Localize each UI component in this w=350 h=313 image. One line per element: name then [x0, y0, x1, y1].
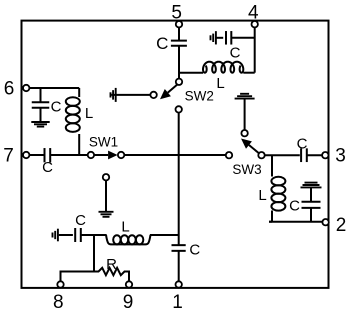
- wire junction down to resistor line: [93, 235, 95, 272]
- node junction L tap: [178, 72, 180, 74]
- outer border frame: [22, 21, 329, 288]
- inductor L (right vertical): [271, 177, 285, 186]
- SW3 left contact: [226, 152, 232, 158]
- wire SW1 to SW3: [124, 154, 226, 156]
- SW2 arm arrow to ground contact: [168, 84, 178, 92]
- ground (inverted, above SW3): [235, 98, 255, 100]
- wire node to inductor L: [179, 72, 203, 74]
- inductor L (left vertical): [66, 97, 80, 106]
- terminal 6: [23, 85, 29, 91]
- terminal 8: [57, 281, 63, 287]
- svg-text:C: C: [297, 136, 308, 153]
- svg-text:8: 8: [53, 292, 64, 313]
- wire capacitor to terminal 3: [306, 154, 322, 156]
- svg-text:5: 5: [171, 3, 182, 24]
- ground (rotated left, bottom): [57, 229, 59, 242]
- ground (rotated left, SW2): [115, 88, 117, 102]
- capacitor C (terminal 7 line): [44, 148, 46, 162]
- svg-text:L: L: [121, 219, 129, 236]
- svg-text:R: R: [106, 256, 117, 273]
- capacitor C (top middle): [171, 40, 187, 42]
- capacitor C (bottom left): [74, 228, 76, 242]
- svg-text:C: C: [230, 45, 241, 62]
- wire ground to capacitor: [310, 187, 312, 202]
- svg-text:L: L: [85, 105, 93, 122]
- svg-text:9: 9: [123, 292, 134, 313]
- wire capacitor to rail: [310, 208, 312, 222]
- svg-text:C: C: [289, 198, 300, 215]
- terminal 3: [322, 152, 328, 158]
- wire contact to rotated ground: [112, 94, 151, 96]
- bottom rail to terminal 2: [269, 221, 322, 223]
- wire resistor line to terminal 8: [60, 271, 62, 282]
- svg-text:4: 4: [248, 3, 259, 24]
- svg-text:L: L: [258, 187, 266, 204]
- SW2 lower contact: [176, 106, 182, 112]
- capacitor C (right, to terminal 2 rail): [302, 201, 321, 203]
- resistor R: [61, 268, 130, 275]
- svg-text:C: C: [51, 99, 62, 116]
- wire open contact to ground: [105, 180, 107, 211]
- wire capacitor to ground: [40, 108, 42, 123]
- svg-text:SW2: SW2: [185, 88, 214, 103]
- wire SW3 pivot to capacitor: [265, 154, 300, 156]
- svg-text:L: L: [216, 75, 224, 92]
- svg-text:C: C: [156, 34, 168, 53]
- wire ground to capacitor C: [217, 37, 224, 39]
- terminal 9: [126, 281, 132, 287]
- wire terminal 4 down: [254, 27, 256, 73]
- wire resistor line to terminal 9: [128, 271, 130, 282]
- capacitor C (above terminal 1): [172, 244, 186, 246]
- SW1 left contact: [88, 152, 94, 158]
- svg-text:C: C: [42, 159, 53, 176]
- terminal 5: [176, 21, 182, 27]
- capacitor C (terminal 3 line): [300, 148, 302, 162]
- svg-text:SW3: SW3: [232, 162, 261, 177]
- svg-text:1: 1: [172, 292, 183, 313]
- SW3 ground-side contact: [241, 130, 247, 136]
- wire capacitor to inductor: [81, 234, 107, 236]
- SW1 arm arrow: [94, 154, 108, 156]
- terminal 1: [176, 281, 182, 287]
- wire capacitor to SW2 pivot: [178, 46, 180, 79]
- ground (below left capacitor): [31, 121, 49, 123]
- svg-text:C: C: [189, 241, 200, 258]
- wire capacitor to terminal 1: [178, 251, 180, 282]
- ground (inverted, above right capacitor): [301, 186, 322, 188]
- wire capacitor to node 4 line: [231, 37, 254, 39]
- terminal 2: [322, 219, 328, 225]
- SW1 open contact below: [103, 174, 109, 180]
- SW3 arm arrow to ground contact: [249, 145, 259, 153]
- svg-text:3: 3: [335, 146, 346, 167]
- terminal 7: [23, 152, 29, 158]
- wire terminal 5 to capacitor: [178, 27, 180, 42]
- capacitor C (left, to ground): [32, 101, 50, 103]
- wire terminal 6 right: [26, 87, 79, 89]
- wire terminal 7 to capacitor: [26, 154, 44, 156]
- wire inductor to center spine: [150, 234, 179, 236]
- wire junction down to inductor: [271, 155, 273, 176]
- wire capacitor to SW1 contact: [50, 154, 88, 156]
- ground (below SW1): [99, 211, 114, 213]
- wire contact up to ground: [244, 99, 246, 130]
- svg-text:C: C: [75, 212, 86, 229]
- wire ground to capacitor: [59, 234, 73, 236]
- wire inductor L bottom down: [78, 134, 80, 155]
- wire SW2 lower contact down to capacitor: [178, 113, 180, 246]
- svg-text:6: 6: [4, 79, 15, 100]
- svg-text:7: 7: [3, 146, 14, 167]
- SW1 right contact: [118, 152, 124, 158]
- capacitor C (series to ground, top right): [225, 31, 227, 45]
- SW2 pivot contact: [176, 79, 182, 85]
- wire to inductor L top: [78, 88, 80, 97]
- SW3 pivot contact: [258, 152, 264, 158]
- wire inductor to terminal 4 line: [243, 72, 254, 74]
- terminal 4: [252, 21, 258, 27]
- wire inductor bottom to rail: [271, 211, 273, 222]
- svg-text:SW1: SW1: [89, 135, 118, 150]
- svg-text:2: 2: [336, 215, 347, 236]
- ground (rotated left, top right): [215, 31, 217, 44]
- inductor L (bottom): [106, 235, 151, 245]
- inductor L (top right): [203, 62, 243, 73]
- wire branch down to capacitor: [40, 88, 42, 102]
- SW2 ground-side contact: [150, 92, 156, 98]
